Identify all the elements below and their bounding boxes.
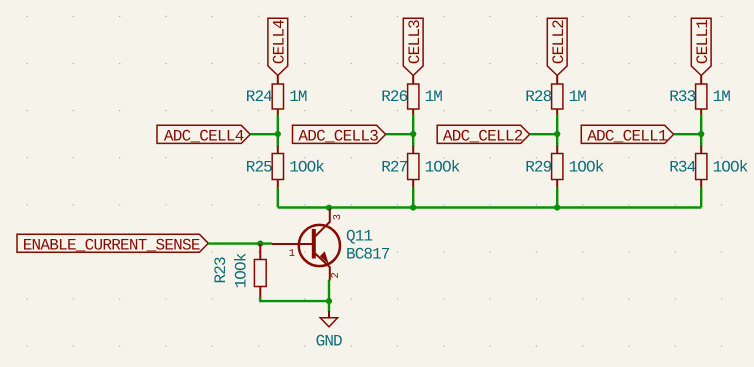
global label CELL2 bbox=[547, 18, 568, 75]
wire: ADC_CELL2 tip to column bbox=[530, 133, 558, 135]
junction bus / ADC_CELL3 column bbox=[410, 204, 416, 210]
junction bus / Q11 collector bbox=[326, 205, 332, 211]
svg-text:ENABLE_CURRENT_SENSE: ENABLE_CURRENT_SENSE bbox=[23, 237, 200, 255]
resistor R34 (100k) bbox=[669, 146, 748, 188]
resistor R25 (100k) bbox=[246, 146, 325, 188]
svg-text:1M: 1M bbox=[425, 88, 443, 106]
wire: ADC_CELL4 tip to column bbox=[250, 133, 278, 135]
svg-text:ADC_CELL3: ADC_CELL3 bbox=[298, 127, 378, 145]
svg-text:1OOk: 1OOk bbox=[233, 253, 251, 288]
global label ADC_CELL4 bbox=[157, 125, 250, 145]
svg-text:R34: R34 bbox=[669, 158, 695, 176]
wire: ADC_CELL3 tip to column bbox=[386, 133, 414, 135]
wire: R33 to node ADC_CELL1 bbox=[700, 115, 702, 134]
svg-text:3: 3 bbox=[332, 214, 344, 220]
transistor Q11 BC817 bbox=[272, 209, 390, 281]
global label CELL1 bbox=[691, 18, 712, 75]
global label ENABLE_CURRENT_SENSE bbox=[17, 234, 208, 254]
resistor R27 (100k) bbox=[381, 146, 460, 188]
svg-text:CELL1: CELL1 bbox=[694, 20, 712, 64]
wire: R23 bottom to emitter node bbox=[260, 297, 329, 301]
wire: R27 to bottom bus bbox=[412, 187, 414, 208]
svg-text:ADC_CELL1: ADC_CELL1 bbox=[587, 127, 667, 145]
junction: emitter / R23 return bbox=[326, 298, 332, 304]
resistor R23 (100k) bbox=[212, 244, 266, 298]
junction at node ADC_CELL4 bbox=[275, 131, 281, 137]
svg-text:1OOk: 1OOk bbox=[425, 158, 460, 176]
wire: CELL1 tip to R33 pin 1 bbox=[700, 76, 702, 85]
junction bus / ADC_CELL2 column bbox=[554, 204, 560, 210]
svg-text:ADC_CELL2: ADC_CELL2 bbox=[443, 127, 523, 145]
svg-text:1: 1 bbox=[289, 248, 295, 260]
svg-text:1OOk: 1OOk bbox=[713, 158, 748, 176]
global label ADC_CELL3 bbox=[293, 125, 386, 145]
svg-text:R27: R27 bbox=[381, 158, 407, 176]
svg-text:ADC_CELL4: ADC_CELL4 bbox=[164, 127, 244, 145]
wire: R34 to bottom bus bbox=[700, 187, 702, 208]
power symbol GND bbox=[316, 311, 342, 350]
svg-text:1OOk: 1OOk bbox=[569, 158, 604, 176]
wire: CELL4 tip to R24 pin 1 bbox=[277, 76, 279, 85]
svg-text:BC817: BC817 bbox=[346, 245, 390, 263]
wire: R28 to node ADC_CELL2 bbox=[556, 115, 558, 134]
wire: R29 to bottom bus bbox=[556, 187, 558, 208]
wire: bottom bus to Q11 collector bbox=[278, 206, 701, 208]
wire: ADC_CELL1 tip to column bbox=[674, 133, 702, 135]
svg-text:GND: GND bbox=[316, 332, 342, 350]
svg-text:R24: R24 bbox=[246, 88, 272, 106]
wire: ENABLE_CURRENT_SENSE to Q11 base bbox=[208, 242, 272, 244]
svg-text:R33: R33 bbox=[669, 88, 695, 106]
wire: R24 to node ADC_CELL4 bbox=[277, 115, 279, 134]
svg-text:R26: R26 bbox=[381, 88, 407, 106]
resistor R26 (1M) bbox=[381, 84, 442, 116]
wire: Q11 emitter to GND bbox=[328, 280, 330, 312]
junction at node ADC_CELL1 bbox=[698, 131, 704, 137]
wire: R25 to bottom bus bbox=[277, 187, 279, 208]
wire: node ADC_CELL2 to R29 bbox=[556, 134, 558, 147]
global label CELL3 bbox=[403, 18, 424, 75]
junction at node ADC_CELL2 bbox=[554, 131, 560, 137]
wire: node ADC_CELL1 to R34 bbox=[700, 134, 702, 147]
svg-text:2: 2 bbox=[330, 272, 342, 278]
wire: node ADC_CELL4 to R25 bbox=[277, 134, 279, 147]
wire: CELL3 tip to R26 pin 1 bbox=[412, 76, 414, 85]
svg-text:R23: R23 bbox=[212, 257, 230, 283]
resistor R24 (1M) bbox=[246, 84, 307, 116]
resistor R28 (1M) bbox=[525, 84, 586, 116]
global label ADC_CELL2 bbox=[437, 125, 529, 145]
wire: CELL2 tip to R28 pin 1 bbox=[556, 76, 558, 85]
svg-text:CELL2: CELL2 bbox=[550, 20, 568, 64]
svg-text:R25: R25 bbox=[246, 158, 272, 176]
wire: node ADC_CELL3 to R27 bbox=[412, 134, 414, 147]
svg-text:1OOk: 1OOk bbox=[289, 158, 324, 176]
svg-text:R28: R28 bbox=[525, 88, 551, 106]
svg-text:CELL3: CELL3 bbox=[406, 20, 424, 64]
global label ADC_CELL1 bbox=[581, 125, 673, 145]
svg-text:CELL4: CELL4 bbox=[271, 20, 289, 64]
wire: R26 to node ADC_CELL3 bbox=[412, 115, 414, 134]
global label CELL4 bbox=[268, 18, 289, 75]
svg-text:Q11: Q11 bbox=[346, 227, 372, 245]
resistor R33 (1M) bbox=[669, 84, 730, 116]
svg-text:1M: 1M bbox=[713, 88, 731, 106]
junction at node ADC_CELL3 bbox=[410, 131, 416, 137]
resistor R29 (100k) bbox=[525, 146, 604, 188]
svg-text:1M: 1M bbox=[569, 88, 587, 106]
svg-text:R29: R29 bbox=[525, 158, 551, 176]
svg-text:1M: 1M bbox=[289, 88, 307, 106]
junction: base wire / R23 bbox=[257, 241, 263, 247]
